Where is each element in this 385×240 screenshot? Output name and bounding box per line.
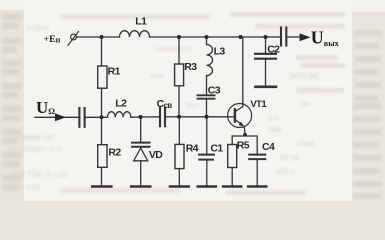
svg-text:ть вхо: ть вхо [26, 23, 49, 32]
wire: C3 to mid rail [206, 100, 208, 117]
capacitor C4 [249, 136, 265, 186]
ground for R2 [92, 185, 111, 188]
junction emitter node [243, 133, 247, 137]
left page margin [0, 10, 24, 201]
svg-text:C2: C2 [267, 43, 280, 55]
svg-text:ного мо: ного мо [290, 71, 319, 80]
resistor R3 [175, 37, 184, 117]
capacitor C3 [198, 95, 215, 98]
svg-text:вкл: вкл [186, 101, 199, 110]
wire: top rail node B to node C [179, 36, 207, 38]
ground for R4 [170, 185, 189, 188]
junction collector / top rail [239, 35, 243, 39]
input signal arrow [55, 113, 66, 121]
junction node VD / mid rail [139, 115, 143, 119]
output coupling capacitor [281, 28, 286, 46]
svg-text:обра: обра [296, 139, 314, 148]
junction node B2 (R3-R4 / mid rail) [177, 115, 181, 119]
ground for VD [131, 185, 150, 188]
wire: collector drop from top rail [242, 37, 244, 107]
wire: collector node to C2 node [241, 36, 266, 38]
wire: node C2m to transistor base [207, 116, 235, 118]
varicap VD [132, 117, 150, 186]
wire: input capacitor to node A2 [86, 116, 108, 118]
junction node A (R1 / top rail) [100, 35, 104, 39]
inductor L3 [207, 37, 213, 94]
svg-text:ны: ны [300, 99, 310, 108]
svg-text:L1: L1 [135, 16, 147, 28]
ground for C1 [198, 185, 216, 188]
resistor R5 [228, 136, 237, 186]
resistor R2 [98, 117, 107, 186]
output arrow [300, 33, 311, 41]
faint bleed-through text inside schematic [8, 12, 345, 195]
svg-text:R4: R4 [186, 143, 199, 155]
svg-text:L2: L2 [115, 98, 127, 110]
wire: C2 node to output capacitor [266, 36, 280, 38]
svg-text:R2: R2 [108, 147, 121, 159]
junction node A2 (R1-R2-input) [100, 115, 104, 119]
coupling capacitor Csv [160, 108, 165, 126]
svg-text:ета с: ета с [276, 167, 294, 176]
svg-text:ция вно: ция вно [8, 182, 40, 192]
wire: VD node to Csv capacitor [141, 116, 160, 118]
svg-text:оно: оно [268, 125, 282, 134]
svg-text:нап: нап [150, 71, 163, 80]
ground for R5 [223, 185, 241, 188]
wire: output capacitor to output arrow [288, 36, 301, 38]
svg-text:C4: C4 [262, 141, 275, 153]
svg-text:VD: VD [149, 149, 163, 161]
faint bleed-through rows right margin [353, 30, 382, 199]
resistor R1 [98, 37, 107, 117]
capacitor C1 [199, 117, 214, 186]
supply terminal +Ep [68, 32, 79, 46]
svg-text:+Еп: +Еп [44, 34, 61, 45]
svg-text:R1: R1 [108, 66, 121, 78]
svg-text:C1: C1 [210, 143, 223, 155]
capacitor C2 [255, 37, 276, 86]
wire: node B2 to node C2m [179, 116, 207, 118]
wire: L1 right lead along top rail to node B [150, 36, 180, 38]
svg-text:C3: C3 [208, 85, 221, 97]
svg-text:R5: R5 [237, 140, 250, 152]
svg-text:в и: в и [268, 113, 279, 122]
input wire from Uomega [35, 116, 79, 118]
wire: L2 to VD node [131, 116, 141, 118]
wire: top rail node C to collector node [207, 36, 241, 38]
junction node B (R3 / top rail) [177, 35, 181, 39]
emitter node junction [232, 135, 256, 137]
ground for C2 [256, 86, 277, 89]
wire: Csv to node B2 [166, 116, 179, 118]
input coupling capacitor [79, 108, 84, 127]
svg-text:тем Рис 9 сле: тем Рис 9 сле [10, 169, 68, 179]
svg-text:VT1: VT1 [250, 99, 267, 110]
svg-text:но обмен и н: но обмен и н [8, 144, 62, 154]
right page margin [352, 12, 385, 201]
inductor L1 [120, 31, 150, 37]
faint bleed-through rows left margin [2, 14, 22, 190]
ground for C4 [248, 185, 266, 188]
wire: terminal to node A [77, 36, 102, 38]
schematic white area [24, 0, 352, 201]
junction C2 / top rail [264, 35, 268, 39]
svg-text:их ав: их ав [280, 153, 299, 162]
svg-text:L3: L3 [214, 46, 226, 58]
transistor VT1 [228, 104, 252, 135]
junction node C (L3 / top rail) [205, 35, 209, 39]
resistor R4 [175, 117, 184, 186]
svg-text:стояние по: стояние по [8, 132, 54, 142]
junction node C3-C1 / mid rail [205, 115, 209, 119]
inductor L2 [108, 112, 131, 118]
svg-text:R3: R3 [184, 61, 197, 73]
wire: node A to L1 left lead [102, 36, 120, 38]
